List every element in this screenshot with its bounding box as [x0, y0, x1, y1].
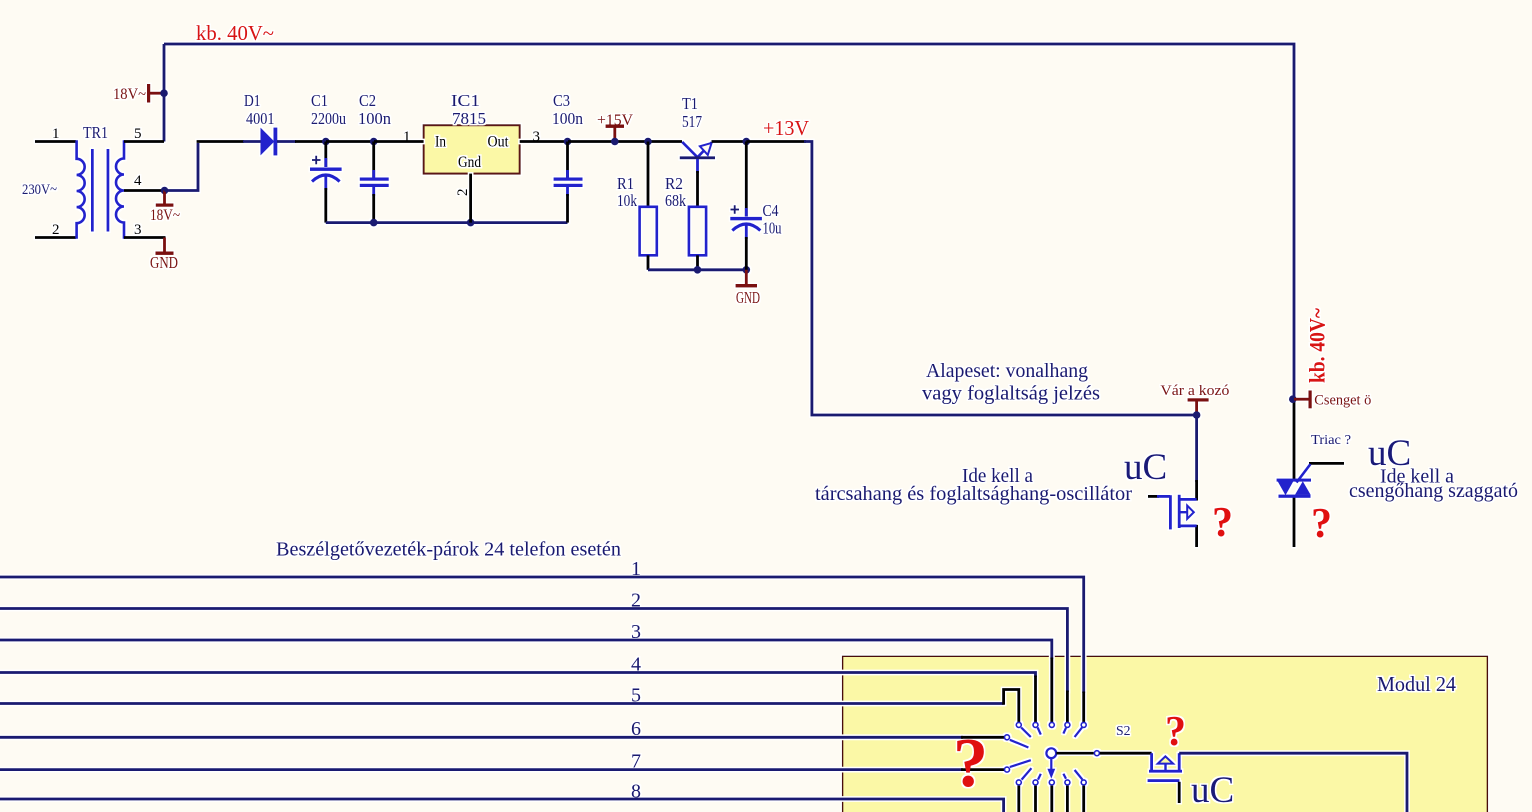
IC1 body fill layer	[424, 125, 520, 173]
module box fill layer	[843, 656, 1488, 812]
